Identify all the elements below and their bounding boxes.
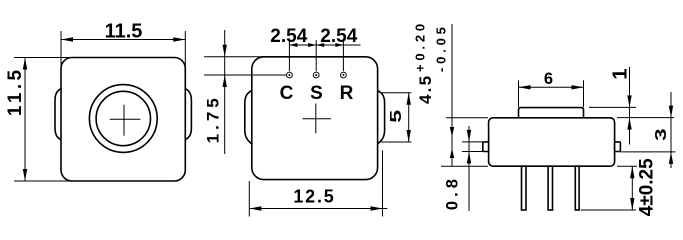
- boss top extension line: [589, 106, 636, 108]
- view2 pin center dots: [288, 74, 290, 76]
- svg-text:1: 1: [610, 68, 632, 79]
- view1 left ear: [55, 89, 61, 140]
- dim 3 dimension line: [670, 92, 672, 168]
- view2 left ear: [245, 91, 252, 144]
- dim 12.5 dimension line: [249, 208, 387, 210]
- dim 4+-0.25 dimension line: [631, 166, 633, 210]
- view2 pin S circle: [313, 72, 319, 78]
- dim 1 arrows: [627, 95, 631, 107]
- dim 11.5 left extension lines: [14, 58, 75, 182]
- dim 3 bottom extension line: [620, 151, 675, 153]
- label 4.5 +0.20 -0.05 (rotated): [413, 20, 449, 104]
- dim 11.5 left dimension line: [24, 58, 26, 182]
- svg-text:S: S: [310, 83, 323, 104]
- dim 11.5 top dimension line: [61, 39, 185, 41]
- svg-text:2.54: 2.54: [320, 26, 357, 47]
- view2 crosshair: [303, 104, 332, 134]
- view3 right tab: [615, 142, 621, 152]
- svg-text:0.8: 0.8: [444, 175, 462, 210]
- svg-text:12.5: 12.5: [293, 187, 335, 207]
- dim 3 arrows: [669, 106, 673, 118]
- dim 6 extension lines: [519, 80, 584, 107]
- dim 11.5 left arrows: [23, 58, 27, 70]
- dim 6 dimension line: [519, 86, 584, 88]
- view2 right ear: [378, 91, 385, 144]
- svg-text:5: 5: [387, 110, 405, 123]
- view1 inner circle: [96, 91, 150, 145]
- dim 11.5 top extension lines: [61, 31, 185, 69]
- dim 0.8 arrows: [467, 130, 471, 142]
- svg-text:11.5: 11.5: [105, 21, 143, 43]
- dim 5 dimension line: [408, 93, 410, 142]
- svg-text:1.75: 1.75: [203, 94, 222, 143]
- view1 crosshair: [110, 105, 141, 136]
- dim 0.8 extension lines: [462, 142, 483, 152]
- svg-text:+0.20: +0.20: [413, 20, 428, 72]
- view1 outer circle: [89, 85, 157, 153]
- view1 body outline: [61, 58, 185, 182]
- dim 4+-0.25 arrows: [630, 166, 634, 178]
- dim 2.54 extension lines: [289, 40, 343, 71]
- body top extension line: [617, 117, 674, 119]
- view2 pin C circle: [287, 72, 293, 78]
- view2 pin R circle: [341, 72, 347, 78]
- svg-text:R: R: [340, 83, 354, 104]
- dim 5 extension lines: [381, 93, 411, 142]
- view3 pin 2: [548, 166, 552, 210]
- dim 1 dimension line: [629, 67, 631, 145]
- svg-text:4.5: 4.5: [416, 74, 435, 104]
- svg-text:2.54: 2.54: [270, 26, 307, 47]
- view3 body outline: [489, 118, 615, 166]
- dim 1.75 extension lines: [204, 57, 286, 75]
- dim 2.54 dimension line: [289, 44, 360, 46]
- dim 1.75 arrows: [223, 45, 227, 57]
- view3 pin 3: [575, 166, 579, 210]
- dim 4+-0.25 extension lines: [581, 166, 637, 210]
- svg-text:C: C: [280, 83, 294, 104]
- dim 4.5 dimension line: [451, 24, 453, 166]
- dim 12.5 arrows: [249, 206, 261, 210]
- dim 1.75 dimension line: [224, 30, 226, 154]
- dim 11.5 top arrows: [61, 37, 73, 41]
- view3 pin 1: [522, 166, 527, 210]
- dim 0.8 dimension line: [468, 126, 470, 211]
- view2 body outline: [252, 57, 378, 180]
- view3 boss: [519, 108, 584, 118]
- dim 4.5 extension lines: [441, 118, 488, 166]
- dim 12.5 extension lines: [249, 151, 382, 217]
- svg-text:-0.05: -0.05: [434, 23, 449, 72]
- view3 left tab: [483, 142, 489, 152]
- dim 5 arrows: [407, 93, 411, 105]
- svg-text:3: 3: [652, 128, 670, 141]
- svg-text:11.5: 11.5: [5, 67, 26, 117]
- svg-text:6: 6: [544, 70, 553, 88]
- svg-text:4±0.25: 4±0.25: [636, 158, 657, 216]
- dim 6 arrows: [519, 85, 531, 89]
- view1 right ear: [185, 89, 191, 140]
- dim 2.54 arrows: [289, 43, 297, 47]
- dim 4.5 arrows: [450, 127, 454, 137]
